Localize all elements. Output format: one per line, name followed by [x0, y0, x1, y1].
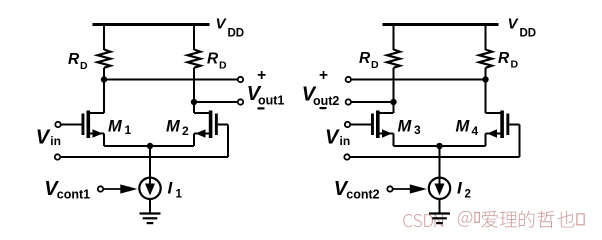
svg-text:M: M [166, 118, 181, 136]
svg-text:R: R [359, 50, 371, 67]
svg-text:D: D [371, 59, 379, 71]
svg-text:M: M [398, 118, 413, 136]
svg-text:out1: out1 [258, 94, 284, 108]
svg-text:D: D [511, 59, 519, 71]
svg-text:R: R [68, 51, 80, 68]
svg-text:V: V [36, 127, 51, 149]
svg-text:D: D [219, 60, 227, 72]
svg-text:3: 3 [414, 123, 421, 137]
svg-text:2: 2 [465, 188, 471, 200]
svg-text:V: V [216, 16, 228, 33]
svg-text:cont2: cont2 [346, 187, 379, 201]
svg-text:M: M [108, 118, 123, 136]
svg-text:in: in [50, 134, 61, 148]
svg-text:I: I [168, 179, 174, 198]
svg-text:I: I [457, 179, 463, 198]
svg-text:4: 4 [472, 124, 479, 138]
svg-text:cont1: cont1 [57, 187, 90, 201]
svg-text:M: M [456, 118, 471, 136]
svg-text:in: in [340, 134, 351, 148]
svg-text:+: + [257, 67, 266, 84]
svg-text:R: R [207, 51, 219, 68]
svg-text:1: 1 [125, 123, 132, 137]
svg-text:1: 1 [176, 188, 183, 200]
svg-text:2: 2 [182, 124, 189, 138]
svg-text:out2: out2 [313, 94, 339, 108]
svg-text:V: V [508, 16, 520, 33]
svg-text:DD: DD [228, 27, 245, 39]
svg-text:V: V [325, 127, 340, 149]
svg-text:+: + [319, 67, 328, 84]
svg-text:D: D [80, 60, 88, 72]
svg-text:DD: DD [520, 27, 537, 39]
svg-text:R: R [498, 50, 510, 67]
